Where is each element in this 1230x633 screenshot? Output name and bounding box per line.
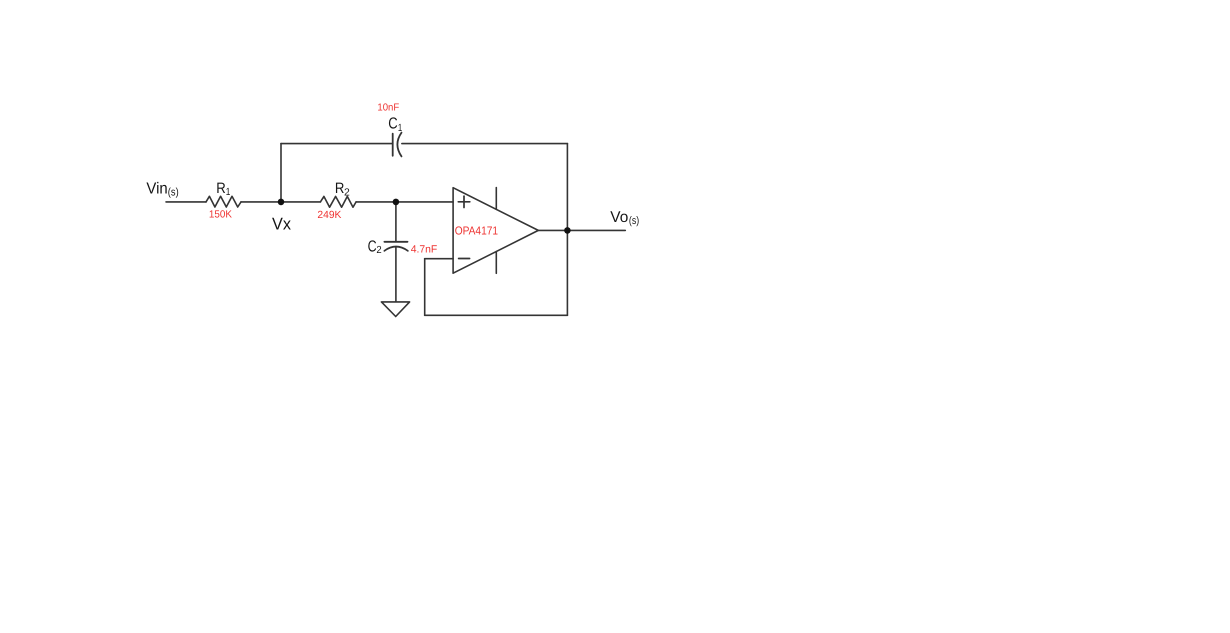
capacitor C2 xyxy=(384,242,407,251)
wire node down to C2 xyxy=(395,202,397,242)
svg-text:150K: 150K xyxy=(209,210,232,221)
op-amp U1 triangle xyxy=(453,188,538,274)
op-amp negative supply pin xyxy=(495,252,497,274)
svg-text:4.7nF: 4.7nF xyxy=(411,244,438,256)
op-amp positive supply pin xyxy=(495,188,497,210)
op-amp minus input marker xyxy=(459,258,470,260)
wire C2 to ground xyxy=(395,247,397,301)
svg-text:1: 1 xyxy=(226,187,231,198)
label C2 xyxy=(368,238,382,255)
wire inverting input xyxy=(425,258,453,260)
svg-text:2: 2 xyxy=(344,187,350,198)
node R2-C2 junction dot xyxy=(393,199,400,206)
op-amp plus input marker xyxy=(458,196,470,207)
capacitor C1 xyxy=(393,133,402,157)
wire feedback bottom horizontal xyxy=(425,314,568,316)
svg-text:Vo: Vo xyxy=(610,209,628,226)
wire input lead from Vin to R1 xyxy=(166,201,206,203)
label Vo(s) xyxy=(610,209,639,227)
wire R1 to R2 xyxy=(241,201,320,203)
node output junction dot xyxy=(564,227,571,234)
svg-text:2: 2 xyxy=(376,245,382,256)
wire feedback vertical drop xyxy=(424,259,426,316)
svg-text:C: C xyxy=(368,238,377,255)
svg-text:C: C xyxy=(388,116,397,133)
resistor R2 xyxy=(320,196,356,207)
wire top feedback right segment xyxy=(402,143,568,145)
svg-text:Vx: Vx xyxy=(272,214,291,233)
svg-text:(s): (s) xyxy=(629,215,639,227)
svg-text:(s): (s) xyxy=(168,186,179,198)
ground xyxy=(381,302,409,317)
label C1 xyxy=(388,116,402,134)
wire top feedback left segment xyxy=(281,143,393,145)
svg-text:10nF: 10nF xyxy=(377,103,399,114)
svg-text:249K: 249K xyxy=(317,210,341,221)
wire R2 to op-amp noninverting input xyxy=(356,201,453,203)
wire node Vx up to feedback xyxy=(280,144,282,202)
node Vx junction dot xyxy=(278,199,285,206)
svg-text:Vin: Vin xyxy=(146,180,167,197)
wire output xyxy=(538,229,625,231)
svg-text:OPA4171: OPA4171 xyxy=(455,224,498,237)
wire right vertical from feedback to bottom loop xyxy=(566,144,568,316)
svg-text:R: R xyxy=(216,180,226,197)
resistor R1 xyxy=(206,196,241,207)
label Vin(s) xyxy=(146,180,178,198)
svg-text:1: 1 xyxy=(398,123,402,134)
label R2 xyxy=(335,180,350,199)
label R1 xyxy=(216,180,230,198)
